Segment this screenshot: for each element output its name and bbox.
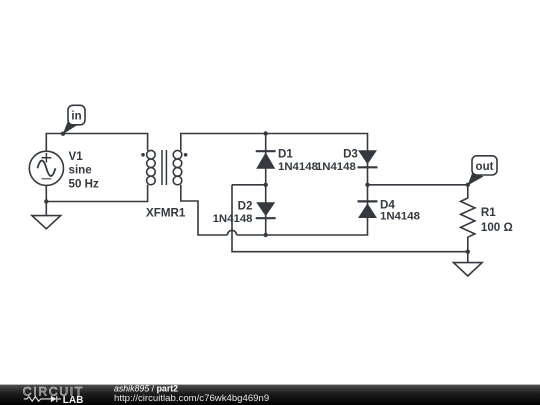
svg-text:sine: sine: [69, 164, 93, 177]
svg-text:1N4148: 1N4148: [213, 213, 253, 225]
svg-text:D1: D1: [278, 148, 293, 161]
svg-text:50 Hz: 50 Hz: [69, 178, 99, 191]
svg-text:1N4148: 1N4148: [278, 161, 318, 173]
svg-text:100 Ω: 100 Ω: [481, 221, 513, 234]
svg-text:XFMR1: XFMR1: [146, 207, 186, 220]
svg-text:V1: V1: [69, 150, 84, 163]
svg-text:ashik895 / part2: ashik895 / part2: [114, 384, 178, 394]
svg-text:1N4148: 1N4148: [380, 210, 420, 222]
svg-text:http://circuitlab.com/c76wk4bg: http://circuitlab.com/c76wk4bg469n9: [114, 393, 269, 404]
svg-text:1N4148: 1N4148: [316, 161, 356, 173]
svg-text:R1: R1: [481, 206, 496, 219]
svg-text:in: in: [71, 111, 81, 123]
svg-text:D3: D3: [343, 148, 358, 161]
svg-text:D2: D2: [238, 200, 253, 213]
svg-text:out: out: [476, 161, 494, 173]
svg-text:LAB: LAB: [63, 395, 84, 405]
